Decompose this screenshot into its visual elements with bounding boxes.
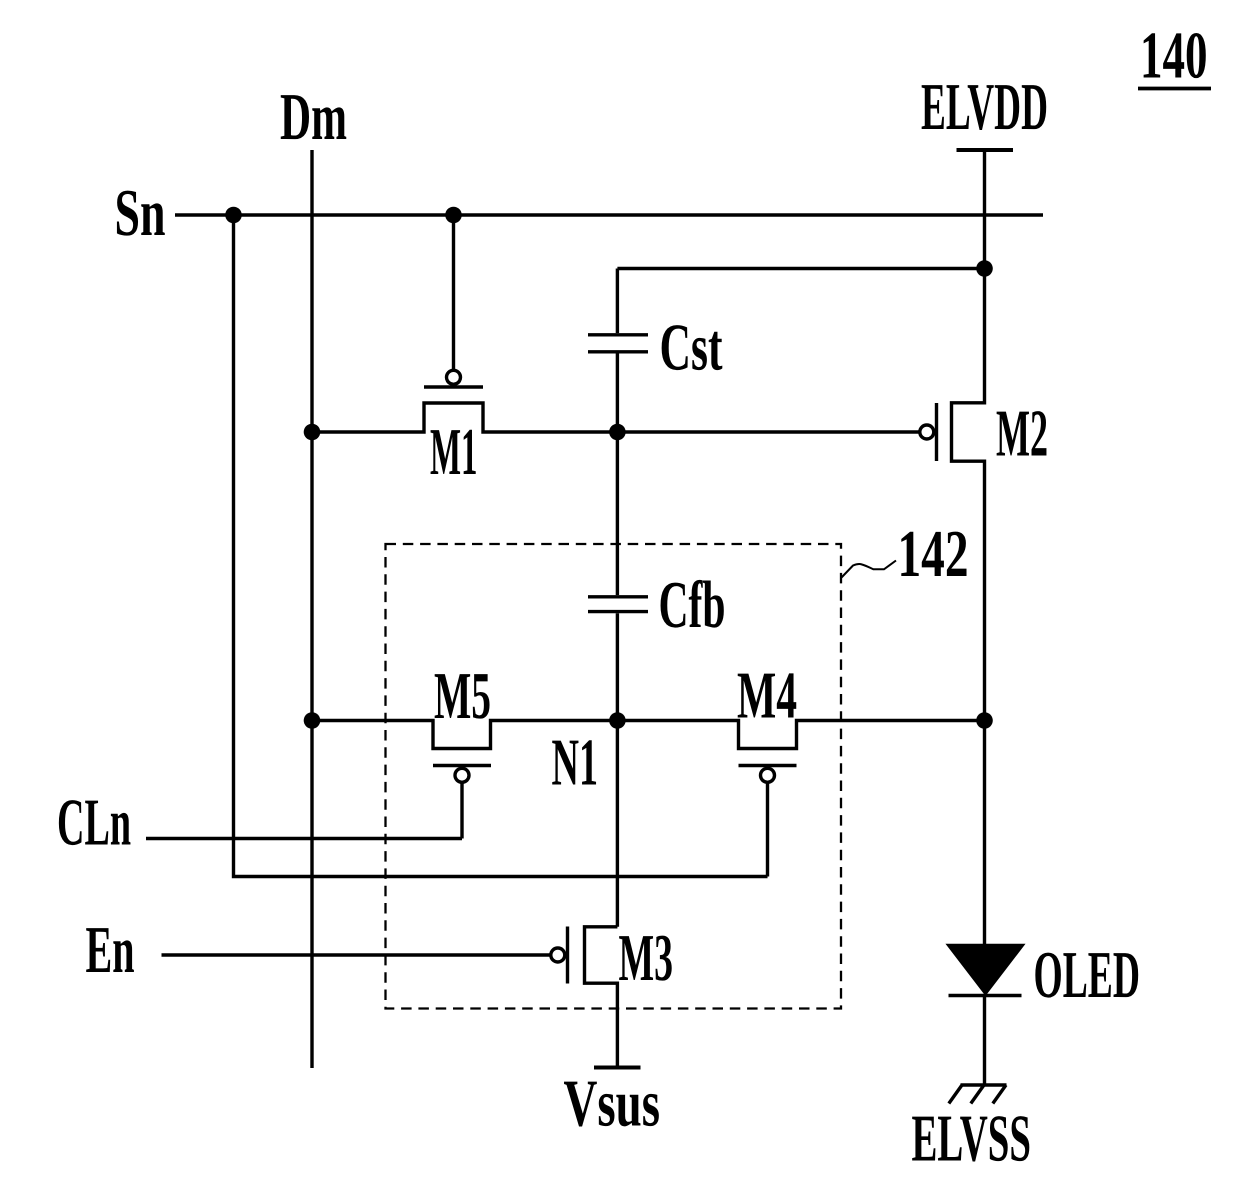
svg-text:Dm: Dm <box>280 80 347 154</box>
label Cst <box>660 311 723 385</box>
wire: M4 gate lead <box>766 783 769 877</box>
capacitor Cst <box>588 335 648 352</box>
svg-text:Vsus: Vsus <box>564 1067 661 1141</box>
wire: center node vertical Cst to Cfb <box>616 354 619 596</box>
label ELVDD <box>921 70 1048 144</box>
label M1 <box>430 415 478 489</box>
junction dot Sn/M1-gate <box>445 207 462 224</box>
wire: middle row with M5 and M4 bodies <box>312 721 985 749</box>
ground symbol (chassis) bar <box>961 1083 1007 1086</box>
label N1 <box>552 726 599 800</box>
wire: Cst top lead <box>616 269 619 334</box>
transistor M3 body jog on N1 vertical <box>585 927 618 1068</box>
svg-text:M2: M2 <box>996 397 1048 471</box>
transistor M1 gate bubble <box>447 370 461 384</box>
power symbol Vsus bar <box>594 1066 641 1070</box>
svg-text:Cst: Cst <box>660 311 723 385</box>
transistor M3 gate bar <box>566 927 569 984</box>
svg-text:M5: M5 <box>434 659 491 733</box>
wire: CLn line to M5 gate <box>146 837 462 840</box>
transistor M5 gate bar <box>433 764 491 767</box>
label Sn <box>115 176 166 250</box>
svg-text:Sn: Sn <box>115 176 166 250</box>
label 140 <box>1140 19 1208 93</box>
wire: ELVDD rail with M2 body jog <box>952 150 985 947</box>
svg-text:N1: N1 <box>552 726 599 800</box>
junction dot M4/OLED-rail <box>976 712 993 729</box>
transistor M3 gate bubble <box>551 948 565 962</box>
junction dot node/M1-row <box>609 424 626 441</box>
svg-text:ELVSS: ELVSS <box>912 1102 1032 1176</box>
junction dot Sn/branch <box>225 207 242 224</box>
label Dm <box>280 80 347 154</box>
svg-text:M1: M1 <box>430 415 478 489</box>
label M3 <box>619 921 674 995</box>
junction dot Dm/M1-row <box>304 424 321 441</box>
diode OLED cathode bar <box>949 994 1022 997</box>
label Vsus <box>564 1067 661 1141</box>
label OLED <box>1034 938 1141 1012</box>
transistor M5 gate bubble <box>455 768 469 782</box>
label En <box>86 913 135 987</box>
label Cfb <box>659 568 726 642</box>
junction dot N1 <box>609 712 626 729</box>
transistor M2 gate bubble <box>920 425 934 439</box>
svg-text:OLED: OLED <box>1034 938 1141 1012</box>
svg-text:140: 140 <box>1140 19 1208 93</box>
transistor M4 gate bar <box>739 764 797 767</box>
transistor M1 (PMOS, on row y=432) body <box>312 403 919 432</box>
dashed box 142 <box>386 544 842 1009</box>
wire: En line to M3 gate bubble <box>162 953 550 956</box>
junction dot Dm/M5-row <box>304 712 321 729</box>
power symbol ELVDD bar <box>957 148 1014 152</box>
svg-text:142: 142 <box>898 517 969 591</box>
junction dot ELVDD/Cst-row <box>976 260 993 277</box>
underline of 140 <box>1138 87 1211 91</box>
wire: OLED cathode to ground <box>983 996 986 1086</box>
wire: M1 gate lead from Sn line <box>452 215 455 369</box>
svg-text:CLn: CLn <box>57 786 131 860</box>
wire: Dm data line vertical <box>310 150 313 1068</box>
transistor M1 gate bar <box>424 385 483 388</box>
svg-text:ELVDD: ELVDD <box>921 70 1048 144</box>
label 142 <box>898 517 969 591</box>
label M5 <box>434 659 491 733</box>
svg-text:M4: M4 <box>737 659 797 733</box>
ground symbol hatch 3 <box>993 1085 1006 1104</box>
label M2 <box>996 397 1048 471</box>
capacitor Cfb <box>588 597 648 612</box>
svg-text:En: En <box>86 913 135 987</box>
svg-text:M3: M3 <box>619 921 674 995</box>
transistor M4 gate bubble <box>761 768 775 782</box>
transistor M2 gate bar <box>935 403 938 461</box>
ground symbol hatch 1 <box>949 1085 962 1104</box>
label ELVSS <box>912 1102 1032 1176</box>
wire: node N1 vertical from Cfb down through row to M3 <box>616 613 619 927</box>
diode OLED (anode triangle) <box>949 945 1023 993</box>
wire: top node row from Cst corner to ELVDD rail <box>617 267 984 270</box>
wire: Sn branch down and over to M4 gate <box>234 215 768 877</box>
squiggle leader to 142 <box>842 561 897 578</box>
wire: M5 gate lead <box>460 783 463 838</box>
ground symbol hatch 2 <box>971 1085 984 1104</box>
label CLn <box>57 786 131 860</box>
label M4 <box>737 659 797 733</box>
svg-text:Cfb: Cfb <box>659 568 726 642</box>
wire: Sn scan line horizontal <box>175 213 1043 216</box>
